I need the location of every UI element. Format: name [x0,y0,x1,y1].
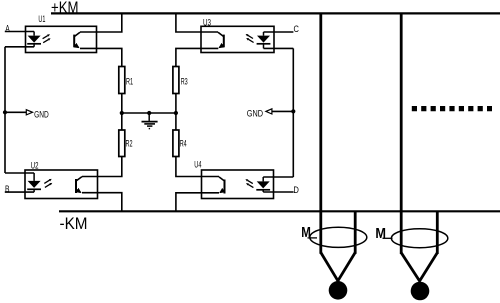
svg-text:A: A [5,23,10,34]
wire U1 emitter to R1 top [80,48,122,66]
U4 light emission arrows [245,179,252,184]
svg-text:R2: R2 [126,138,133,149]
svg-text:GND: GND [34,109,49,119]
ground arrow right [266,109,272,114]
resistor R2 [119,130,133,157]
wire motor bus 1 from +KM [319,13,322,253]
U1 phototransistor [73,35,75,48]
wire R3 bottom to junction row [175,94,177,114]
resistor R4 [173,130,187,157]
svg-text:R1: R1 [126,77,133,88]
wire R4 bottom to U4 collector [176,157,219,177]
svg-text:C: C [294,24,299,35]
wire U1 LED cathode row [5,46,34,48]
U2 phototransistor [75,179,77,193]
junction dot right bus GND tap [291,109,295,113]
wire +KM drop to U1 collector [80,13,122,32]
wire +KM drop to U3 collector [176,13,218,32]
wire junction to R4 top [175,113,177,130]
U3 light emission arrows [246,34,253,39]
wire node B to U2 LED cathode [5,191,34,193]
wire junction to R2 top [121,113,123,130]
M1 plunger ball [329,281,348,300]
junction dot right [174,111,178,115]
wire U3 LED anode to node C [264,31,294,33]
U4 phototransistor [224,180,226,194]
wire U3 emitter to R3 top [176,48,218,66]
U2 light emission arrows [44,179,51,184]
wire to left GND arrow [5,111,26,113]
svg-text:U2: U2 [31,160,39,170]
M1 label leader line [308,237,318,239]
wire right bus to U4 LED anode [263,176,293,178]
svg-text:M: M [375,225,386,242]
svg-text:B: B [5,184,10,195]
svg-text:U4: U4 [194,159,201,169]
svg-text:+KM: +KM [51,0,79,17]
M2 coil ellipse [391,229,447,248]
U4 body [202,170,274,199]
power rail -KM [59,210,500,212]
wire junction row horizontal [122,112,176,114]
wire node A to U1 LED anode [5,31,34,33]
U3 body [201,26,274,52]
resistor R3 [173,67,188,94]
op-amp U4 optocoupler [194,159,273,198]
motor M2 [375,225,447,300]
op-amp U3 optocoupler [201,17,274,52]
wire to right GND arrow [272,110,293,112]
junction dot left [120,111,124,115]
U1 LED [33,32,35,36]
wire motor bus 2 from +KM [400,13,403,254]
wire motor bus 1 return from -KM [354,211,357,254]
svg-text:-KM: -KM [60,214,88,233]
wire U3 LED cathode row [264,47,294,49]
U1 light emission arrows [43,34,50,39]
motor M1 [301,224,367,299]
wire motor bus 2 return from -KM [436,211,439,254]
svg-text:R3: R3 [181,77,188,88]
ground symbol center [142,113,158,129]
M1 coil ellipse [310,227,367,247]
U3 LED [263,32,265,36]
M2 plunger ball [411,282,430,301]
ground arrow left [26,110,32,115]
U1 body [26,26,97,52]
svg-text:R4: R4 [180,138,187,149]
M2 funnel [401,253,437,281]
M1 funnel [321,253,355,281]
junction dot left bus GND tap [3,110,7,114]
U4 LED [262,177,264,181]
wire U2 emitter to -KM [82,193,122,212]
M2 label leader line [383,237,393,239]
wire left vertical cathode bus [4,47,6,173]
wire R2 bottom to U2 collector [82,157,122,177]
svg-text:U3: U3 [203,17,211,27]
wire R1 bottom to junction row [121,94,123,114]
svg-text:D: D [293,185,299,196]
wire left bus to U2 LED anode [5,172,34,174]
power rail +KM [51,12,500,14]
resistor R1 [119,67,133,94]
svg-text:GND: GND [247,109,263,119]
wire U4 LED cathode to node D [263,191,293,193]
svg-text:U1: U1 [38,14,45,24]
U2 body [25,170,98,199]
U2 LED [33,173,35,181]
wire right vertical cathode bus [292,48,294,177]
wire U4 emitter to -KM [176,193,219,212]
U3 phototransistor [223,35,225,48]
op-amp U2 optocoupler [25,160,98,198]
dotted continuation line [412,106,492,111]
op-amp U1 optocoupler [26,14,97,53]
junction dot center [147,111,151,115]
